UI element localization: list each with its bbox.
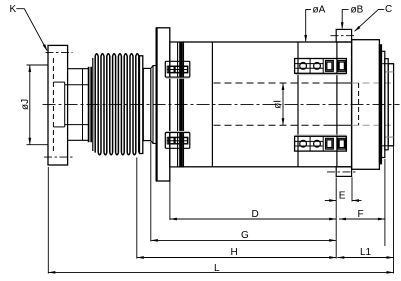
right bearing bottom [295,136,347,151]
housing seam 2 [297,42,299,167]
svg-text:øI: øI [273,100,284,109]
coupling first wall [92,58,94,151]
dim line E [325,200,336,202]
bearing carrier ring [170,42,184,167]
coupling clamp left [89,67,92,142]
end cap step ring [382,51,385,157]
ext line G left [150,142,152,242]
svg-text:L1: L1 [360,247,372,258]
hub top line [379,63,393,65]
svg-text:E: E [339,191,346,202]
bottom boss [336,167,351,177]
centerline [43,103,400,105]
svg-text:øJ: øJ [20,99,31,110]
dim line L [48,271,393,273]
svg-text:K: K [10,4,17,15]
dim line oJ [29,65,31,145]
left flange plate [48,45,68,165]
left bearing top [165,61,190,77]
svg-text:D: D [252,209,259,220]
hidden hole near boss [358,83,360,125]
leader oB [342,10,348,29]
svg-text:H: H [231,247,238,258]
svg-text:øA: øA [313,5,326,16]
ext lines oJ [27,64,49,66]
leader oA [306,10,311,42]
stator bore hidden line bottom [214,124,392,126]
ext line D left [169,169,171,220]
ext line L right [393,147,395,274]
leader K [16,9,47,51]
leader C [355,10,385,32]
top boss [336,29,351,42]
dim line oI [282,83,284,125]
svg-text:G: G [241,230,249,241]
housing seam 1 [211,42,213,167]
end hub [388,64,393,146]
hub cylinder [68,69,88,141]
inner shaft lines [65,85,88,125]
boss seam left [336,42,338,167]
dim line H [137,257,336,259]
dim line L1 [337,257,393,259]
front mounting flange [156,28,169,181]
coupling collar [153,66,156,144]
dim line G [151,239,336,241]
bellows corrugations [95,54,139,155]
svg-text:F: F [358,209,364,220]
dim line D [170,218,336,220]
end cap plate [379,45,381,164]
bearing seat shadow lines [166,75,346,135]
flange bolt centerline bottom [44,156,73,158]
stator bore hidden line top [214,82,392,84]
dim line F [339,218,385,220]
right bearing top [295,59,347,74]
end bell [352,40,380,170]
ext line boss left [335,178,337,259]
main housing body [183,42,351,167]
coupling ring [143,66,153,144]
ext line L left [47,167,49,274]
flange bolt centerline top [46,51,73,53]
ext line F right [384,159,386,246]
clamp band dark [179,42,182,166]
svg-text:C: C [385,4,392,15]
bellows end collar [140,56,143,154]
left bearing bottom [165,133,190,149]
svg-text:øB: øB [351,5,364,16]
hub bottom line [379,145,393,147]
ext line boss right [351,177,353,201]
end cap inner ring [385,59,388,150]
ext line H left [136,158,138,259]
svg-text:L: L [214,263,220,274]
hub shoulder lines [386,71,394,73]
